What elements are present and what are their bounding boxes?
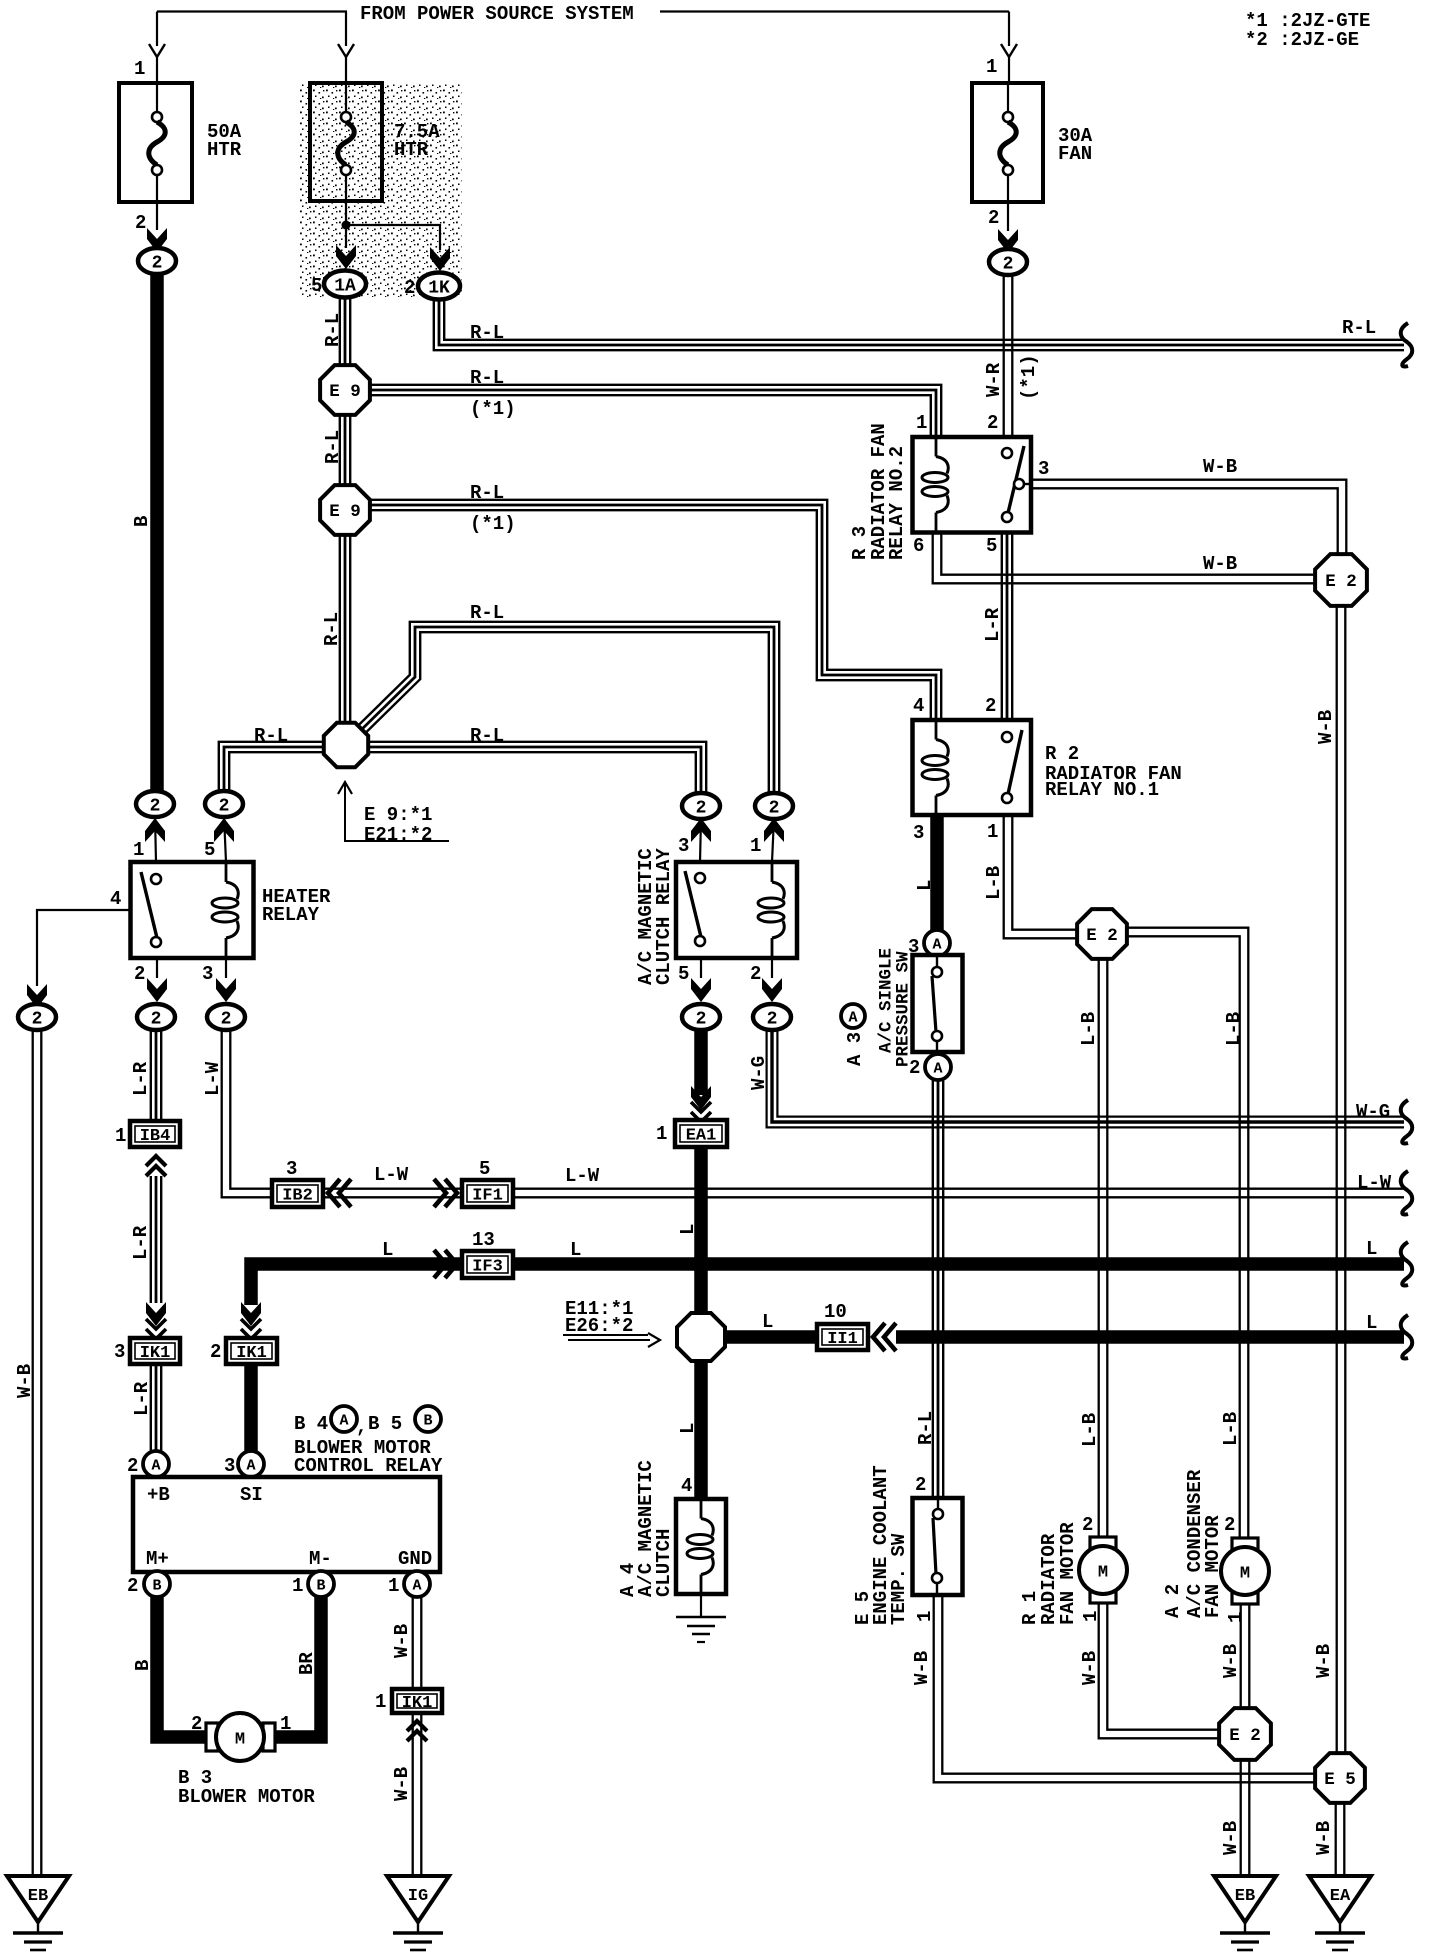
- switch E5 engine coolant temp SW: [913, 1498, 963, 1595]
- wire L-W IF1 to right edge: [513, 1189, 1404, 1198]
- connector IK1 bottom: [392, 1689, 442, 1713]
- svg-text:L-R: L-R: [130, 1225, 152, 1260]
- svg-text:2: 2: [769, 799, 780, 819]
- svg-text:M+: M+: [146, 1548, 169, 1570]
- svg-text:W-B: W-B: [391, 1767, 413, 1801]
- svg-text:L: L: [570, 1239, 581, 1261]
- svg-text:RELAY NO.1: RELAY NO.1: [1045, 779, 1159, 801]
- svg-text:R-L: R-L: [322, 430, 344, 464]
- feed wire to fuse 50A: [156, 12, 158, 47]
- wire heater relay pin 3: [225, 958, 227, 978]
- wire L-B E2 to A/C condenser fan motor: [1127, 928, 1248, 1538]
- relay A/C magnetic clutch relay: [676, 862, 797, 958]
- svg-text:IB2: IB2: [282, 1187, 313, 1206]
- arrow into EA1: [691, 1086, 711, 1110]
- wire W-B condenser fan motor to E2: [1241, 1605, 1250, 1710]
- svg-text:EB: EB: [28, 1887, 48, 1906]
- wire fuse 50A pin 2: [156, 202, 158, 230]
- brace L-W right edge: [1401, 1171, 1413, 1215]
- connector IF1: [462, 1180, 513, 1207]
- brace R-L right edge: [1401, 323, 1413, 367]
- switch A/C single pressure SW: [913, 955, 963, 1052]
- svg-text:2: 2: [767, 1010, 778, 1030]
- connector A blower relay +B: [143, 1451, 169, 1477]
- wire L-R IB4 to IK1: [151, 1176, 161, 1303]
- arrow into IK1 left: [146, 1302, 166, 1326]
- svg-text:2: 2: [32, 1010, 43, 1030]
- svg-text:GND: GND: [398, 1548, 432, 1570]
- svg-text:3: 3: [286, 1158, 297, 1180]
- arrow into 1K: [430, 247, 450, 271]
- svg-text:1: 1: [133, 839, 144, 861]
- connector 2 A/C relay pin 2: [753, 1004, 791, 1030]
- svg-text:2: 2: [988, 207, 999, 229]
- svg-text:2: 2: [127, 1455, 138, 1477]
- chevron IF1: [434, 1179, 457, 1207]
- svg-text:E 2: E 2: [1229, 1726, 1261, 1746]
- svg-text:M: M: [1098, 1564, 1108, 1583]
- wire W-G A/C clutch relay pin 2 to right edge: [767, 1030, 1404, 1127]
- brace L IF3 right edge: [1401, 1242, 1413, 1286]
- svg-text:L-B: L-B: [1223, 1012, 1245, 1046]
- chevron II1: [873, 1323, 896, 1351]
- svg-text:M: M: [1240, 1565, 1250, 1584]
- svg-text:B: B: [423, 1413, 432, 1430]
- svg-text:L-B: L-B: [1078, 1012, 1100, 1046]
- ground below A/C clutch: [700, 1594, 702, 1617]
- connector IK1 middle: [226, 1338, 277, 1364]
- wire R-L from 1K connector to right edge: [434, 297, 1404, 350]
- ground EB left: [7, 1876, 69, 1950]
- svg-text:1: 1: [1080, 1611, 1102, 1622]
- svg-text:2: 2: [150, 797, 161, 817]
- wire B fuse 50A to heater relay: [150, 272, 164, 792]
- svg-text:A: A: [412, 1578, 421, 1595]
- arrow into IK1 middle: [241, 1302, 261, 1326]
- svg-text:3: 3: [678, 835, 689, 857]
- central junction octagon: [324, 723, 368, 767]
- svg-text:5: 5: [986, 535, 997, 557]
- svg-text:(*1): (*1): [1018, 354, 1040, 400]
- svg-text:A: A: [151, 1458, 160, 1475]
- wire L-W heater relay pin 3 to IB2: [222, 1030, 272, 1197]
- svg-text:W-B: W-B: [1079, 1651, 1101, 1685]
- svg-text:W-R: W-R: [983, 362, 1005, 397]
- wire W-B IK1 to IG ground: [413, 1712, 422, 1876]
- wire W-B temp switch to E5 octagon: [934, 1595, 1317, 1782]
- junction octagon E11/E26: [677, 1313, 725, 1361]
- connector 2 below fuse 30A: [989, 249, 1027, 275]
- connector 2 heater relay pin 3: [207, 1004, 245, 1030]
- svg-text:R-L: R-L: [322, 313, 344, 347]
- svg-text:FAN: FAN: [1058, 143, 1092, 165]
- svg-text:W-B: W-B: [1203, 553, 1237, 575]
- wire L-B R2 pin 1 to E2: [1004, 815, 1078, 938]
- svg-text:2: 2: [750, 963, 761, 985]
- svg-text:R-L: R-L: [915, 1411, 937, 1445]
- connector A pin 2 pressure switch: [925, 1054, 951, 1080]
- svg-text:B: B: [316, 1578, 325, 1595]
- wire fuse 30A pin 2: [1007, 202, 1009, 231]
- wire R-L E9 to central octagon: [340, 534, 350, 723]
- svg-text:2: 2: [151, 1010, 162, 1030]
- wire heater relay pin 2: [156, 958, 158, 978]
- svg-text:L-R: L-R: [982, 607, 1004, 642]
- svg-text:3: 3: [202, 963, 213, 985]
- svg-text:A: A: [339, 1413, 348, 1430]
- svg-text:2: 2: [134, 963, 145, 985]
- wire L junction octagon to II1: [725, 1330, 817, 1344]
- svg-text:W-B: W-B: [1220, 1821, 1242, 1855]
- svg-text:A 2: A 2: [1162, 1584, 1184, 1618]
- svg-text:E 5: E 5: [1324, 1770, 1356, 1790]
- svg-text:2: 2: [404, 277, 415, 299]
- feed wire to fuse 30A: [1008, 12, 1010, 47]
- svg-text:BLOWER MOTOR: BLOWER MOTOR: [178, 1786, 315, 1808]
- wire W-B E5 octagon to EA ground: [1336, 1802, 1345, 1876]
- svg-text:EB: EB: [1235, 1887, 1255, 1906]
- wire L-B E2 to radiator fan motor: [1099, 959, 1108, 1538]
- svg-text:W-B: W-B: [1203, 456, 1237, 478]
- wire R-L from E9 top to R3 pin 1: [369, 385, 941, 437]
- svg-text:L-W: L-W: [202, 1061, 224, 1096]
- relay R3 radiator fan relay no.2: [913, 437, 1032, 533]
- svg-text:W-G: W-G: [748, 1056, 770, 1090]
- fuse 30A FAN: [972, 83, 1043, 202]
- svg-text:E 9: E 9: [329, 382, 361, 402]
- svg-text:4: 4: [110, 888, 121, 910]
- svg-text:10: 10: [824, 1301, 847, 1323]
- connector II1: [817, 1324, 868, 1350]
- svg-text:L-B: L-B: [983, 866, 1005, 900]
- connector 2 heater relay pin 5: [205, 791, 243, 817]
- svg-text:+B: +B: [147, 1484, 170, 1506]
- svg-text:B 4: B 4: [294, 1413, 328, 1435]
- junction E9 upper: [320, 365, 370, 415]
- svg-text:L: L: [382, 1239, 393, 1261]
- svg-text:L: L: [914, 880, 936, 891]
- svg-text:L-W: L-W: [1357, 1172, 1392, 1194]
- chevron below IK1 bottom: [407, 1721, 427, 1741]
- svg-text:2: 2: [152, 254, 163, 274]
- svg-text:E 9:*1: E 9:*1: [364, 804, 432, 826]
- wire L IK1 to blower control relay SI: [244, 1364, 258, 1451]
- svg-text:2: 2: [1082, 1514, 1093, 1536]
- svg-text:W-B: W-B: [391, 1624, 413, 1658]
- svg-text:(*1): (*1): [470, 513, 516, 535]
- wire W-B heater relay pin 4 to EB ground: [33, 1030, 42, 1876]
- svg-text:5: 5: [204, 839, 215, 861]
- chevron IF3: [434, 1250, 457, 1278]
- svg-text:2: 2: [191, 1713, 202, 1735]
- wire L-R heater relay pin 2 to IB4: [151, 1030, 161, 1120]
- svg-text:2: 2: [696, 799, 707, 819]
- svg-text:2: 2: [1003, 255, 1014, 275]
- ground EB right: [1214, 1876, 1276, 1950]
- svg-text:2: 2: [1224, 1514, 1235, 1536]
- connector A blower relay SI: [238, 1451, 264, 1477]
- svg-text:L-B: L-B: [1079, 1413, 1101, 1447]
- svg-text:1: 1: [986, 56, 997, 78]
- wire W-R fuse 30A to R3 pin 2: [1004, 272, 1013, 437]
- svg-text:R-L: R-L: [470, 367, 504, 389]
- arrow into 1A: [336, 245, 356, 269]
- arrow heater relay pin 5: [224, 816, 226, 862]
- wire R-L between E9 octagons: [340, 414, 350, 486]
- svg-text:R-L: R-L: [321, 612, 343, 646]
- svg-text:A: A: [933, 1061, 942, 1078]
- connector 2 below fuse 50A: [138, 248, 176, 274]
- svg-text:1: 1: [115, 1125, 126, 1147]
- svg-text:1: 1: [375, 1691, 386, 1713]
- svg-text:4: 4: [681, 1475, 692, 1497]
- relay R2 radiator fan relay no.1: [913, 720, 1032, 815]
- svg-text:R-L: R-L: [470, 725, 504, 747]
- svg-text:B: B: [131, 516, 153, 527]
- connector IK1 left: [130, 1338, 180, 1364]
- svg-text:2: 2: [915, 1474, 926, 1496]
- svg-text:2: 2: [985, 695, 996, 717]
- connector 2 on B wire: [136, 791, 174, 817]
- connector 2 A/C relay pin 3: [682, 793, 720, 819]
- svg-text:2: 2: [909, 1057, 920, 1079]
- wire R-L diagonal octagon to A/C clutch relay pin 1: [354, 622, 779, 794]
- wire L IF3 to right edge: [513, 1257, 1404, 1271]
- wire W-B E2 to E5 octagon right edge: [1337, 606, 1346, 1754]
- svg-text:R-L: R-L: [1342, 317, 1376, 339]
- svg-text:2: 2: [210, 1341, 221, 1363]
- arrow A/C relay pin 1: [772, 818, 774, 862]
- svg-text:L-R: L-R: [130, 1061, 152, 1096]
- connector 2 A/C relay pin 1: [755, 793, 793, 819]
- svg-text:W-B: W-B: [1313, 1644, 1335, 1678]
- svg-text:RELAY NO.2: RELAY NO.2: [886, 446, 908, 560]
- connector 2 heater relay pin 4: [18, 1004, 56, 1030]
- wire A/C relay pin 2: [771, 958, 773, 978]
- svg-text:2: 2: [219, 797, 230, 817]
- wire fuse 7.5A pin junction: [345, 201, 347, 248]
- svg-text:L: L: [677, 1423, 699, 1434]
- svg-text:1: 1: [656, 1123, 667, 1145]
- svg-text:R-L: R-L: [254, 725, 288, 747]
- power source header line: [157, 10, 347, 12]
- svg-text:CLUTCH: CLUTCH: [653, 1529, 675, 1597]
- svg-text:1: 1: [914, 1611, 936, 1622]
- svg-text:1: 1: [1225, 1612, 1247, 1623]
- wire L A/C clutch relay pin 5 to EA1: [694, 1029, 708, 1095]
- wire W-B E2 to EB ground: [1241, 1759, 1250, 1876]
- wire B blower relay M+ to blower motor: [157, 1597, 208, 1737]
- svg-text:IK1: IK1: [140, 1344, 171, 1363]
- wire W-B radiator fan motor to E2: [1099, 1604, 1220, 1738]
- relay blower motor control relay: [133, 1477, 440, 1572]
- svg-text:IK1: IK1: [236, 1344, 267, 1363]
- svg-text:L: L: [1366, 1312, 1377, 1334]
- feed wire to fuse 7.5A: [345, 12, 347, 47]
- svg-text:E 2: E 2: [1325, 572, 1357, 592]
- connector B blower relay M-: [308, 1571, 334, 1597]
- svg-text:EA1: EA1: [686, 1127, 717, 1146]
- svg-text:HTR: HTR: [394, 139, 429, 161]
- wire W-B R3 pin 6 to E2: [933, 532, 1316, 583]
- svg-text:*2 :2JZ-GE: *2 :2JZ-GE: [1245, 29, 1359, 51]
- arrow heater relay pin 1: [155, 816, 156, 862]
- svg-text:IB4: IB4: [140, 1127, 171, 1146]
- svg-text:R-L: R-L: [470, 602, 504, 624]
- connector IF3: [462, 1251, 513, 1278]
- svg-text:BR: BR: [296, 1652, 318, 1675]
- svg-text:1: 1: [987, 821, 998, 843]
- svg-text:1: 1: [292, 1575, 303, 1597]
- svg-text:B: B: [132, 1660, 154, 1671]
- motor A2 A/C condenser fan motor: [1221, 1538, 1269, 1604]
- label A 3 A: [841, 1004, 865, 1028]
- connector EA1: [675, 1120, 727, 1147]
- junction E5 bottom: [1315, 1753, 1365, 1803]
- svg-text:W-B: W-B: [1220, 1644, 1242, 1678]
- junction E2 middle: [1077, 909, 1127, 959]
- wire L-R R3 pin 5 to R2 pin 2: [1002, 532, 1012, 720]
- svg-text:1A: 1A: [334, 277, 356, 297]
- fuse 50A HTR: [119, 83, 192, 202]
- svg-text:13: 13: [472, 1229, 495, 1251]
- wire L-W IB2 to IF1: [323, 1189, 462, 1198]
- chevron IB2: [328, 1179, 351, 1207]
- svg-text:3: 3: [224, 1455, 235, 1477]
- motor R1 radiator fan motor: [1079, 1537, 1127, 1603]
- component A4 A/C magnetic clutch: [676, 1499, 726, 1594]
- svg-text:E 9: E 9: [329, 502, 361, 522]
- svg-text:EA: EA: [1330, 1887, 1351, 1906]
- svg-text:3: 3: [913, 822, 924, 844]
- svg-text:A 3: A 3: [844, 1032, 866, 1066]
- svg-text:PRESSURE SW: PRESSURE SW: [893, 951, 913, 1067]
- ground IG: [387, 1876, 449, 1950]
- svg-text:R 2: R 2: [1045, 743, 1079, 765]
- connector A blower relay GND: [404, 1571, 430, 1597]
- svg-text:3: 3: [114, 1341, 125, 1363]
- svg-text:W-B: W-B: [14, 1364, 36, 1398]
- connector 2 heater relay pin 2: [137, 1004, 175, 1030]
- svg-text:5: 5: [678, 963, 689, 985]
- svg-text:6: 6: [913, 535, 924, 557]
- svg-text:A: A: [932, 937, 941, 954]
- wire BR blower relay M- to blower motor: [274, 1597, 321, 1737]
- svg-text:1: 1: [916, 412, 927, 434]
- wire W-B R3 pin 3 to E2: [1031, 480, 1346, 554]
- connector 1K: [418, 273, 460, 300]
- connector IB2: [272, 1180, 323, 1207]
- svg-text:R-L: R-L: [470, 482, 504, 504]
- svg-text:E 2: E 2: [1086, 926, 1118, 946]
- ground EA: [1309, 1876, 1371, 1950]
- wire heater relay pin 4: [37, 910, 130, 986]
- svg-text:L: L: [1366, 1238, 1377, 1260]
- wire R-L octagon to A/C clutch relay pin 3: [368, 742, 706, 794]
- svg-text:M-: M-: [309, 1548, 332, 1570]
- svg-text:W-B: W-B: [911, 1651, 933, 1685]
- wire A/C relay pin 5: [700, 958, 702, 978]
- connector IB4: [130, 1121, 180, 1147]
- wire R-L octagon to heater relay pin 5: [219, 742, 324, 793]
- svg-text:1: 1: [388, 1575, 399, 1597]
- brace L II1 right edge: [1401, 1315, 1413, 1359]
- wire R-L fuse 7.5A to 1A connector: [340, 297, 350, 366]
- svg-text:B: B: [152, 1578, 161, 1595]
- svg-text:L-R: L-R: [131, 1381, 153, 1416]
- svg-text:IK1: IK1: [402, 1694, 433, 1713]
- svg-text:1: 1: [280, 1713, 291, 1735]
- svg-text:L: L: [677, 1224, 699, 1235]
- svg-text:2: 2: [135, 212, 146, 234]
- chevron below IB4: [146, 1156, 166, 1176]
- junction E2 bottom: [1219, 1708, 1271, 1760]
- wire R-L from E9 bottom to R2 pin 4: [369, 500, 941, 720]
- connector 1A: [324, 271, 366, 298]
- wire L IF3 branch: [251, 1264, 462, 1305]
- svg-text:R-L: R-L: [470, 322, 504, 344]
- wire L junction octagon to A/C magnetic clutch: [694, 1358, 708, 1499]
- brace W-G right edge: [1401, 1100, 1413, 1144]
- junction E9 lower: [320, 485, 370, 535]
- wire L EA1 to junction octagon: [694, 1147, 708, 1315]
- svg-text:M: M: [235, 1731, 245, 1750]
- svg-text:L-W: L-W: [374, 1164, 409, 1186]
- svg-text:L: L: [762, 1311, 773, 1333]
- svg-text:3: 3: [1038, 458, 1049, 480]
- svg-text:B 5: B 5: [368, 1413, 402, 1435]
- svg-text:W-B: W-B: [1313, 1821, 1335, 1855]
- connector 2 A/C relay pin 5: [682, 1004, 720, 1030]
- svg-text:IG: IG: [408, 1887, 428, 1906]
- svg-text:IF3: IF3: [472, 1258, 503, 1277]
- svg-text:1: 1: [134, 58, 145, 80]
- connector B blower relay M+: [144, 1571, 170, 1597]
- svg-text:2: 2: [221, 1010, 232, 1030]
- svg-text:TEMP. SW: TEMP. SW: [888, 1533, 910, 1625]
- svg-text:1: 1: [750, 835, 761, 857]
- svg-text:2: 2: [987, 412, 998, 434]
- motor B3 blower motor: [206, 1723, 218, 1751]
- wire R-L pressure switch to temp switch: [933, 1080, 943, 1498]
- svg-text:5: 5: [311, 275, 322, 297]
- svg-text:(*1): (*1): [470, 398, 516, 420]
- wire W-B blower relay GND to IK1: [413, 1597, 422, 1690]
- svg-text:2: 2: [696, 1010, 707, 1030]
- svg-text:E26:*2: E26:*2: [565, 1315, 633, 1337]
- svg-text:1K: 1K: [428, 279, 450, 299]
- wire L R2 pin 3 to pressure switch: [930, 815, 944, 931]
- svg-text:SI: SI: [240, 1484, 263, 1506]
- svg-text:5: 5: [479, 1158, 490, 1180]
- annotation E 9:#1 E21:#2: [338, 782, 352, 794]
- svg-text:W-B: W-B: [1315, 710, 1337, 744]
- junction E2 top right: [1315, 554, 1367, 606]
- shading behind 7.5A fuse: [300, 83, 462, 298]
- svg-text:L-W: L-W: [565, 1165, 600, 1187]
- connector A pin 3 pressure switch: [924, 930, 950, 956]
- svg-text:II1: II1: [827, 1330, 858, 1349]
- svg-text:W-G: W-G: [1356, 1101, 1390, 1123]
- svg-text:FAN MOTOR: FAN MOTOR: [1202, 1515, 1224, 1618]
- svg-text:RELAY: RELAY: [262, 904, 320, 926]
- wire L II1 to right edge: [896, 1330, 1404, 1344]
- svg-text:L-B: L-B: [1220, 1412, 1242, 1446]
- svg-text:IF1: IF1: [472, 1187, 503, 1206]
- svg-text:E21:*2: E21:*2: [364, 824, 432, 846]
- wire L-R IK1 to blower control relay: [151, 1364, 161, 1451]
- relay heater relay: [131, 862, 254, 958]
